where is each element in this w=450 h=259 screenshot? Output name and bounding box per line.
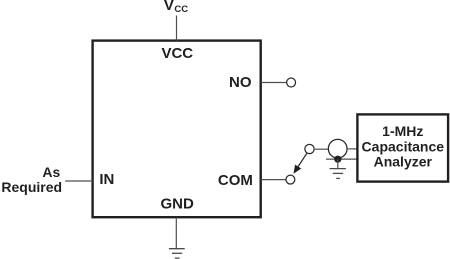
wire meter bottom lead to analyzer xyxy=(326,158,358,160)
svg-text:NO: NO xyxy=(229,74,252,91)
junction dot xyxy=(334,156,341,163)
wire switch throw to meter xyxy=(315,148,329,150)
svg-text:IN: IN xyxy=(99,171,114,188)
ground symbol at meter xyxy=(330,169,346,179)
ground symbol at GND xyxy=(169,249,185,258)
analyzer box xyxy=(357,114,448,181)
switch pole terminal circle at COM xyxy=(286,175,295,184)
svg-text:1-MHz: 1-MHz xyxy=(382,123,423,139)
svg-text:Required: Required xyxy=(1,179,62,195)
svg-text:GND: GND xyxy=(161,196,195,213)
wire NO pin to terminal xyxy=(261,82,287,84)
switch blade S1 xyxy=(297,153,307,168)
terminal circle at NO xyxy=(287,78,296,87)
svg-text:Analyzer: Analyzer xyxy=(374,154,433,170)
wire input to IN pin xyxy=(65,180,92,182)
svg-text:VCC: VCC xyxy=(161,45,193,62)
svg-text:CC: CC xyxy=(174,4,188,15)
wire COM pin to switch pole xyxy=(261,179,286,181)
wire VCC supply to pin VCC xyxy=(176,16,178,41)
switch blade arrowhead xyxy=(294,165,301,173)
svg-text:COM: COM xyxy=(218,172,253,189)
svg-text:Capacitance: Capacitance xyxy=(362,139,445,155)
svg-text:As: As xyxy=(42,164,60,180)
IC device box U1 xyxy=(93,41,261,218)
svg-text:V: V xyxy=(164,0,174,14)
switch throw terminal circle xyxy=(305,144,314,153)
wire GND pin to ground xyxy=(175,217,177,248)
capacitance meter source circle xyxy=(328,139,347,158)
ground stub at meter xyxy=(337,159,339,168)
wire meter to analyzer upper lead xyxy=(347,148,358,150)
